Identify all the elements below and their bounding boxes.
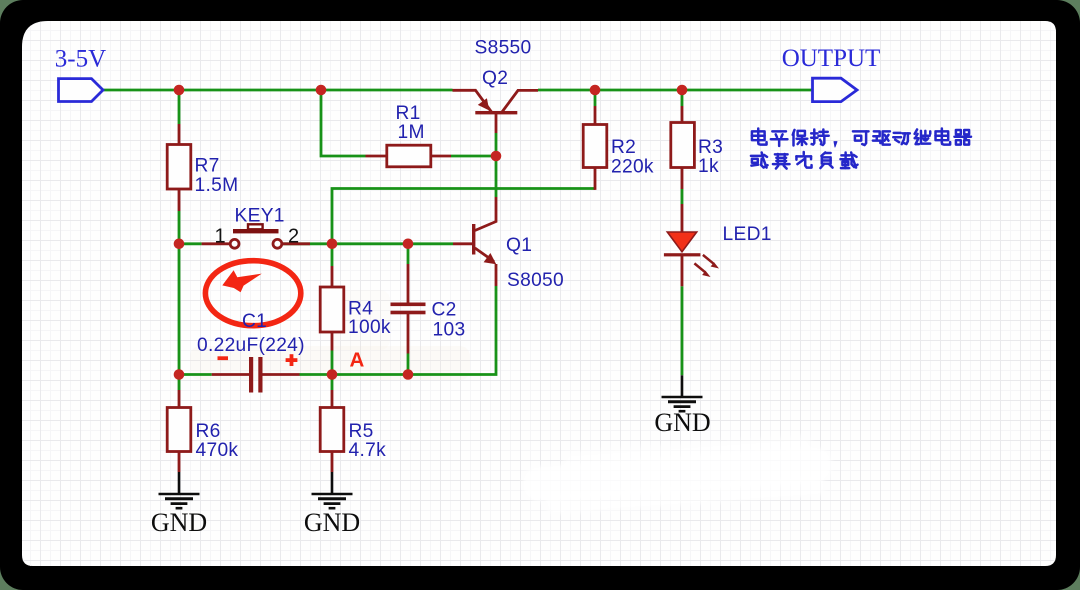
svg-text:LED1: LED1	[723, 224, 772, 245]
wire KEY row	[179, 242, 453, 245]
port 3-5V	[55, 46, 106, 102]
junction dot 4	[677, 85, 688, 96]
pin R5	[331, 390, 334, 408]
wire R4 bottom	[331, 351, 334, 375]
pin R2	[594, 106, 597, 190]
LED LED1	[664, 224, 772, 277]
watermark wash	[520, 433, 834, 516]
resistor R6	[167, 408, 238, 462]
junction dot 5	[491, 151, 502, 162]
wire R3 to LED	[681, 189, 684, 204]
svg-text:Q2: Q2	[482, 68, 508, 89]
port OUTPUT	[782, 45, 881, 102]
wire to R1 row	[321, 90, 366, 156]
pin R6 bottom	[178, 452, 181, 473]
svg-text:C2: C2	[432, 300, 457, 321]
svg-text:1: 1	[215, 226, 226, 248]
pin R7	[178, 124, 181, 211]
svg-text:R2: R2	[611, 137, 636, 158]
wire 3-5V top rail left	[103, 89, 453, 92]
pin R6	[178, 390, 181, 408]
svg-text:3-5V: 3-5V	[55, 46, 106, 73]
resistor R4	[320, 287, 391, 338]
pin R1	[366, 155, 452, 158]
wire top rail right to OUTPUT	[538, 89, 813, 92]
svg-text:R7: R7	[195, 156, 220, 177]
svg-text:S8050: S8050	[507, 270, 564, 291]
ground under LED1	[662, 375, 703, 411]
junction dot 3	[590, 85, 601, 96]
svg-text:4.7k: 4.7k	[349, 440, 387, 461]
ground under R6	[159, 472, 200, 508]
junction dot 2	[316, 85, 327, 96]
svg-text:1.5M: 1.5M	[195, 175, 239, 196]
note line 2: huo qi2 ta fu zai	[751, 152, 858, 169]
svg-text:OUTPUT: OUTPUT	[782, 45, 881, 72]
svg-text:1k: 1k	[698, 156, 719, 177]
transistor Q1 (S8050 NPN)	[453, 197, 564, 291]
svg-text:GND: GND	[304, 508, 360, 537]
wire R3 top pin	[681, 90, 684, 106]
annotation ellipse	[205, 261, 300, 326]
resistor R3	[671, 123, 723, 178]
pin KEY1	[202, 242, 310, 245]
capacitor C1	[197, 311, 305, 393]
svg-text:S8550: S8550	[475, 38, 532, 59]
junction dot 8	[403, 239, 414, 250]
svg-text:470k: 470k	[196, 440, 239, 461]
note line 1: dian ping bao chi , ke qu dong ji dian qi	[752, 128, 971, 147]
pin R3	[681, 106, 684, 189]
pin LED1	[681, 204, 684, 286]
svg-text:A: A	[350, 349, 365, 372]
svg-text:R6: R6	[196, 421, 221, 442]
svg-text:GND: GND	[151, 508, 207, 537]
svg-text:Q1: Q1	[506, 235, 532, 256]
pin C2	[407, 264, 410, 354]
svg-text:C1: C1	[242, 311, 267, 332]
faint cream tint near C1/A	[190, 346, 470, 380]
junction dot 1	[174, 85, 185, 96]
svg-text:KEY1: KEY1	[235, 206, 285, 227]
transistor Q2 (S8550 PNP)	[453, 38, 539, 134]
resistor R5	[320, 408, 386, 462]
svg-text:R5: R5	[349, 421, 374, 442]
svg-text:GND: GND	[654, 408, 710, 437]
pin R5 bottom	[331, 452, 334, 473]
resistor R2	[583, 125, 654, 178]
junction dot 10	[327, 369, 338, 380]
wire R5 R6 tops	[179, 375, 332, 391]
wire R1 to Q2 base node	[451, 133, 496, 197]
resistor R7	[167, 145, 238, 197]
pin R4	[331, 266, 334, 351]
wire LED to GND	[681, 286, 684, 375]
svg-text:1M: 1M	[398, 122, 425, 143]
capacitor C2	[391, 300, 466, 341]
junction dot 9	[174, 369, 185, 380]
wire node A rail	[179, 286, 496, 375]
svg-text:100k: 100k	[348, 317, 391, 338]
svg-text:R3: R3	[698, 137, 723, 158]
C1 plus mark	[286, 358, 298, 362]
switch KEY1	[215, 206, 300, 249]
annotation cursor arrow	[222, 270, 261, 292]
svg-text:0.22uF(224): 0.22uF(224)	[197, 335, 305, 356]
wire R2 feedback row	[332, 189, 595, 267]
svg-text:2: 2	[288, 226, 299, 248]
LED1 light arrows	[694, 255, 713, 272]
junction dot 7	[327, 239, 338, 250]
wire R2 top pin	[594, 90, 597, 106]
C1 minus mark	[218, 356, 229, 360]
junction dot 6	[174, 239, 185, 250]
svg-text:R1: R1	[396, 103, 421, 124]
wire C2 column	[407, 244, 410, 375]
resistor R1	[387, 103, 431, 167]
svg-text:103: 103	[433, 320, 466, 341]
pin C1	[212, 373, 300, 376]
ground under R5	[312, 472, 353, 508]
wire R7 column	[178, 90, 181, 375]
junction dot 11	[403, 369, 414, 380]
svg-text:220k: 220k	[611, 157, 654, 178]
